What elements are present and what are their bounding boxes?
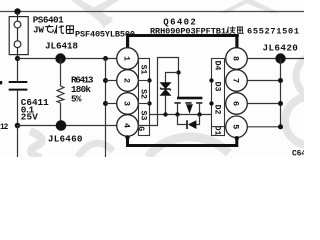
capacitor C6411 bbox=[9, 59, 28, 126]
wire row4 through right box bbox=[212, 126, 227, 128]
wire row4 left bbox=[18, 125, 117, 127]
wire S branch vertical bbox=[105, 59, 107, 158]
zener diode pair bbox=[161, 83, 171, 96]
wire S2 tap bbox=[106, 80, 117, 82]
svg-text:JL6460: JL6460 bbox=[48, 133, 83, 144]
watermark top-left X bbox=[71, 0, 119, 28]
wire row2 right bbox=[247, 80, 280, 82]
node row2 right bbox=[278, 78, 283, 83]
svg-text:3: 3 bbox=[121, 101, 131, 106]
body diode D bbox=[178, 115, 200, 130]
watermark right ring bbox=[285, 97, 320, 145]
transistor Q6402 package right pins bbox=[226, 48, 248, 138]
svg-text:4: 4 bbox=[121, 123, 131, 128]
svg-text:JL6418: JL6418 bbox=[45, 41, 78, 52]
left label box bbox=[139, 59, 150, 136]
node pin4 bottom bbox=[125, 135, 129, 139]
wire left rail to bottom edge bbox=[17, 126, 19, 158]
wire row4 right bbox=[247, 126, 280, 128]
node top junction bbox=[14, 8, 20, 14]
node gate-zener junction bbox=[176, 70, 180, 74]
node row4 right bbox=[278, 124, 283, 129]
wire gate path bbox=[139, 58, 179, 126]
node D2 box dot bbox=[209, 101, 213, 105]
wire row3 through box bbox=[139, 103, 150, 105]
wire left edge stub bbox=[0, 81, 2, 84]
node D3 box dot bbox=[209, 78, 213, 82]
svg-text:25V: 25V bbox=[21, 112, 38, 123]
wire thick top bus bbox=[126, 34, 239, 37]
node pin5 bottom bbox=[235, 136, 239, 140]
watermark bottom curves bbox=[78, 143, 113, 157]
node JL6418 bbox=[55, 53, 65, 63]
watermark top-right chevron bbox=[219, 0, 280, 13]
node S branch bbox=[103, 56, 108, 61]
wire drain rail right bbox=[280, 59, 282, 127]
wire S3 tap bbox=[106, 103, 117, 105]
svg-text:D3: D3 bbox=[213, 82, 222, 92]
wire thick stub to pin8 bbox=[235, 37, 238, 48]
svg-text:G: G bbox=[136, 126, 145, 131]
svg-text:2: 2 bbox=[4, 124, 9, 132]
svg-text:1: 1 bbox=[121, 56, 131, 61]
node S3 tap bbox=[103, 101, 108, 106]
svg-text:D4: D4 bbox=[213, 61, 222, 71]
node JL6420 bbox=[275, 53, 285, 63]
node S3 box dot bbox=[147, 101, 151, 105]
svg-text:655271501: 655271501 bbox=[247, 26, 299, 36]
svg-text:6: 6 bbox=[230, 101, 240, 106]
node S2 tap bbox=[103, 78, 108, 83]
node row3 right bbox=[278, 101, 283, 106]
svg-text:7: 7 bbox=[230, 78, 240, 83]
mosfet channel segments bbox=[174, 102, 180, 104]
node S2 box dot bbox=[147, 78, 151, 82]
svg-text:5%: 5% bbox=[71, 93, 82, 104]
svg-text:2: 2 bbox=[121, 78, 131, 83]
wire top rail bbox=[0, 11, 304, 13]
svg-text:S3: S3 bbox=[139, 111, 148, 121]
resistor R6413 bbox=[57, 59, 64, 126]
svg-text:C64: C64 bbox=[292, 149, 304, 157]
node source-bus bbox=[175, 112, 179, 116]
mosfet gate plate bbox=[177, 97, 202, 100]
mosfet source lead bbox=[177, 104, 179, 115]
transistor Q6402 package left pins bbox=[117, 48, 139, 137]
watermark bottom-left squiggle bbox=[30, 131, 42, 158]
wire row1 left bbox=[18, 58, 117, 60]
protector PS6401 bbox=[9, 12, 28, 59]
svg-text:S2: S2 bbox=[139, 89, 148, 99]
mosfet substrate arrow bbox=[186, 104, 193, 114]
node JL6460 bbox=[56, 120, 67, 131]
wire internal bus bbox=[150, 114, 212, 116]
node junction below PS6401 bbox=[15, 56, 20, 61]
wire zener bottom lead bbox=[165, 95, 167, 114]
node bottom-left junction bbox=[15, 123, 21, 129]
right label box bbox=[212, 59, 225, 136]
svg-text:JW: JW bbox=[33, 25, 44, 36]
wire row1 right bbox=[247, 58, 304, 60]
svg-text:JL6420: JL6420 bbox=[263, 43, 299, 54]
node zener-bus bbox=[163, 112, 167, 116]
node drain-bus bbox=[197, 112, 201, 116]
wire row3 right bbox=[247, 103, 280, 105]
wire thick stub to pin1 bbox=[126, 37, 129, 48]
svg-text:8: 8 bbox=[230, 56, 240, 61]
wire zener top lead bbox=[166, 73, 179, 83]
mosfet drain lead bbox=[199, 104, 201, 115]
wire row2 through box bbox=[139, 80, 150, 82]
svg-text:D2: D2 bbox=[213, 105, 222, 115]
wire thick bottom link bbox=[128, 136, 237, 145]
svg-text:5: 5 bbox=[230, 124, 240, 129]
svg-text:S1: S1 bbox=[139, 65, 148, 75]
